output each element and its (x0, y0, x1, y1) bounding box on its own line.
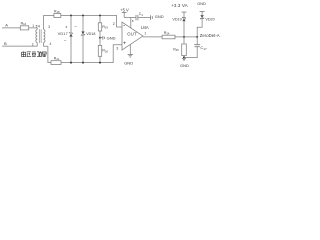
wire top rail (61, 16, 122, 28)
svg-text:VD19: VD19 (172, 17, 181, 21)
wire A to transformer primary (29, 28, 38, 30)
junction top R19 (99, 15, 101, 17)
wire output to clamps (175, 36, 197, 38)
svg-text:GND: GND (155, 14, 164, 19)
svg-text:ZeroDet-A: ZeroDet-A (200, 33, 220, 38)
resistor R21 (51, 61, 61, 65)
svg-text:A: A (5, 23, 8, 28)
polarity mark plus (65, 26, 67, 28)
junction R25 C17 ground (183, 56, 185, 58)
junction VD20 C17 (196, 36, 198, 38)
transformer T4 secondary winding (44, 30, 45, 43)
svg-text:4: 4 (50, 42, 52, 46)
resistor R25 (183, 37, 185, 44)
minus input mark (123, 24, 125, 26)
transformer T4 primary winding (36, 30, 37, 43)
wire A input (2, 27, 20, 29)
zener diode VD20 (197, 11, 202, 37)
resistor R16 (20, 26, 28, 30)
capacitor C17 (196, 37, 198, 45)
junction bottom VD18 (82, 62, 84, 64)
zener diode VD19 (183, 12, 185, 37)
junction bottom VD17 (70, 62, 72, 64)
label 电压互感器 (voltage transformer, stylized) (22, 51, 47, 57)
zener diode VD18 (82, 16, 84, 63)
wire C4 to ground (138, 17, 150, 19)
node R19 R20 junction (99, 37, 101, 39)
svg-text:GND: GND (197, 1, 206, 6)
svg-text:GND: GND (107, 36, 116, 41)
svg-text:3: 3 (116, 46, 118, 50)
resistor R18 (54, 14, 61, 18)
ground sideways C4 (151, 15, 153, 20)
polarity mark minus (75, 26, 77, 28)
svg-text:U4A: U4A (141, 25, 149, 30)
resistor R24 (162, 35, 175, 39)
svg-text:VD17: VD17 (58, 32, 68, 36)
svg-text:8: 8 (132, 19, 134, 23)
svg-text:GND: GND (124, 60, 133, 65)
junction top VD18 (82, 15, 84, 17)
plus input mark (123, 42, 125, 44)
resistor R19 (99, 16, 101, 23)
wire output (143, 36, 162, 38)
capacitor C4 (136, 15, 138, 21)
svg-text:VD18: VD18 (86, 32, 95, 36)
junction top VD17 (70, 15, 72, 17)
transformer core (40, 29, 41, 43)
ground comparator (129, 45, 131, 55)
junction VD19 R25 (183, 36, 185, 38)
zener diode VD17 (70, 16, 72, 63)
op-amp U4A comparator triangle (122, 22, 143, 50)
ground bottom right (182, 58, 186, 60)
wire secondary top to rail (44, 16, 54, 30)
svg-text:B: B (4, 41, 7, 46)
resistor R20 (99, 38, 101, 46)
svg-text:1: 1 (32, 24, 34, 28)
polarity mark minus lower (64, 40, 66, 42)
svg-text:VD20: VD20 (205, 18, 214, 22)
svg-text:T4: T4 (35, 24, 40, 29)
wire bottom rail (61, 45, 122, 63)
wire secondary bottom to rail (44, 43, 51, 63)
svg-text:OUT: OUT (127, 31, 137, 36)
svg-text:1: 1 (144, 32, 146, 36)
svg-text:2: 2 (113, 22, 115, 26)
ground sideways at divider node (100, 37, 103, 39)
wire B to primary bottom (2, 43, 37, 47)
svg-text:GND: GND (180, 63, 189, 68)
svg-text:2: 2 (32, 42, 34, 46)
svg-text:3: 3 (48, 25, 50, 29)
junction bottom R20 (99, 62, 101, 64)
svg-text:+5 V: +5 V (120, 8, 129, 13)
svg-text:+3.3 VA: +3.3 VA (171, 3, 188, 8)
svg-text:C17: C17 (200, 45, 207, 51)
